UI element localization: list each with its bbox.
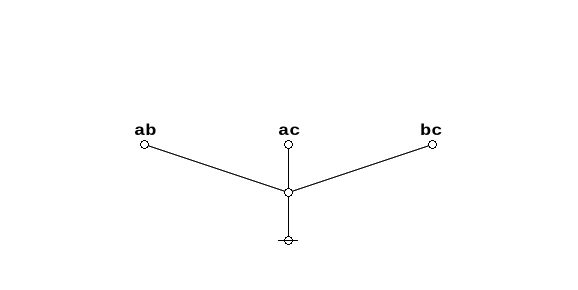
wire bottom terminal crossbar (278, 240, 298, 242)
label ab (134, 123, 156, 139)
wire ab to center junction (145, 145, 289, 193)
label bc (420, 123, 442, 139)
node bc (428, 140, 437, 149)
node ab (140, 140, 149, 149)
wire bc to center junction (289, 145, 433, 193)
node ac (284, 140, 293, 149)
node bottom terminal (284, 236, 293, 245)
wire ac through center junction to bottom terminal (288, 145, 290, 241)
node center junction (284, 188, 293, 197)
label ac (278, 123, 300, 139)
